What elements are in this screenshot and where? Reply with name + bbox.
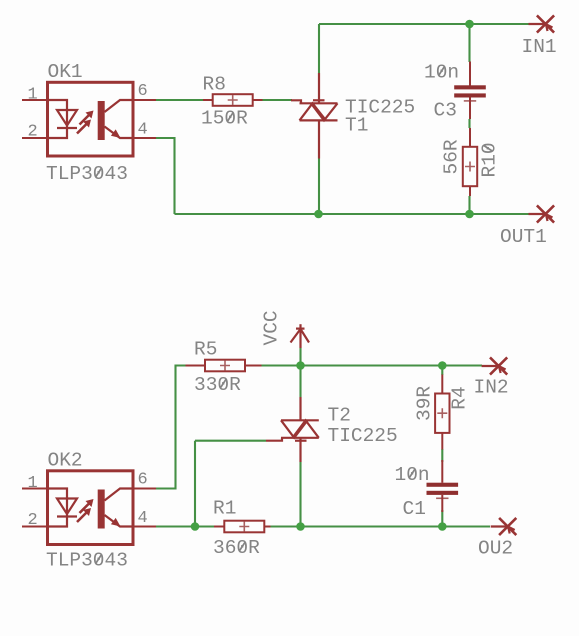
svg-text:C1: C1 bbox=[403, 498, 426, 520]
svg-text:4: 4 bbox=[138, 121, 148, 140]
svg-text:1: 1 bbox=[28, 474, 38, 493]
svg-text:VCC: VCC bbox=[261, 310, 283, 345]
svg-text:IN1: IN1 bbox=[522, 36, 557, 58]
svg-text:2: 2 bbox=[28, 511, 38, 530]
svg-text:56R: 56R bbox=[441, 139, 463, 174]
svg-text:4: 4 bbox=[138, 509, 148, 528]
svg-text:R4: R4 bbox=[449, 386, 471, 409]
svg-text:1: 1 bbox=[28, 86, 38, 105]
svg-text:39R: 39R bbox=[413, 386, 435, 421]
svg-text:IN2: IN2 bbox=[474, 377, 509, 399]
svg-text:2: 2 bbox=[28, 123, 38, 142]
svg-text:T1: T1 bbox=[345, 115, 368, 137]
svg-text:OUT1: OUT1 bbox=[500, 226, 547, 248]
svg-text:OK1: OK1 bbox=[48, 61, 83, 83]
svg-text:OK2: OK2 bbox=[48, 450, 83, 472]
svg-text:360R: 360R bbox=[213, 537, 260, 559]
svg-text:6: 6 bbox=[138, 82, 148, 101]
svg-text:R5: R5 bbox=[194, 339, 217, 361]
svg-text:150R: 150R bbox=[201, 108, 248, 130]
svg-text:R8: R8 bbox=[203, 74, 226, 96]
svg-text:6: 6 bbox=[138, 471, 148, 490]
svg-text:TLP3043: TLP3043 bbox=[46, 550, 128, 572]
svg-text:330R: 330R bbox=[194, 374, 241, 396]
svg-text:C3: C3 bbox=[434, 100, 457, 122]
svg-text:R1: R1 bbox=[213, 498, 236, 520]
svg-text:R10: R10 bbox=[479, 142, 501, 177]
svg-text:T2: T2 bbox=[328, 405, 351, 427]
svg-text:OU2: OU2 bbox=[478, 538, 513, 560]
svg-text:TLP3043: TLP3043 bbox=[46, 163, 128, 185]
svg-text:TIC225: TIC225 bbox=[328, 425, 398, 447]
